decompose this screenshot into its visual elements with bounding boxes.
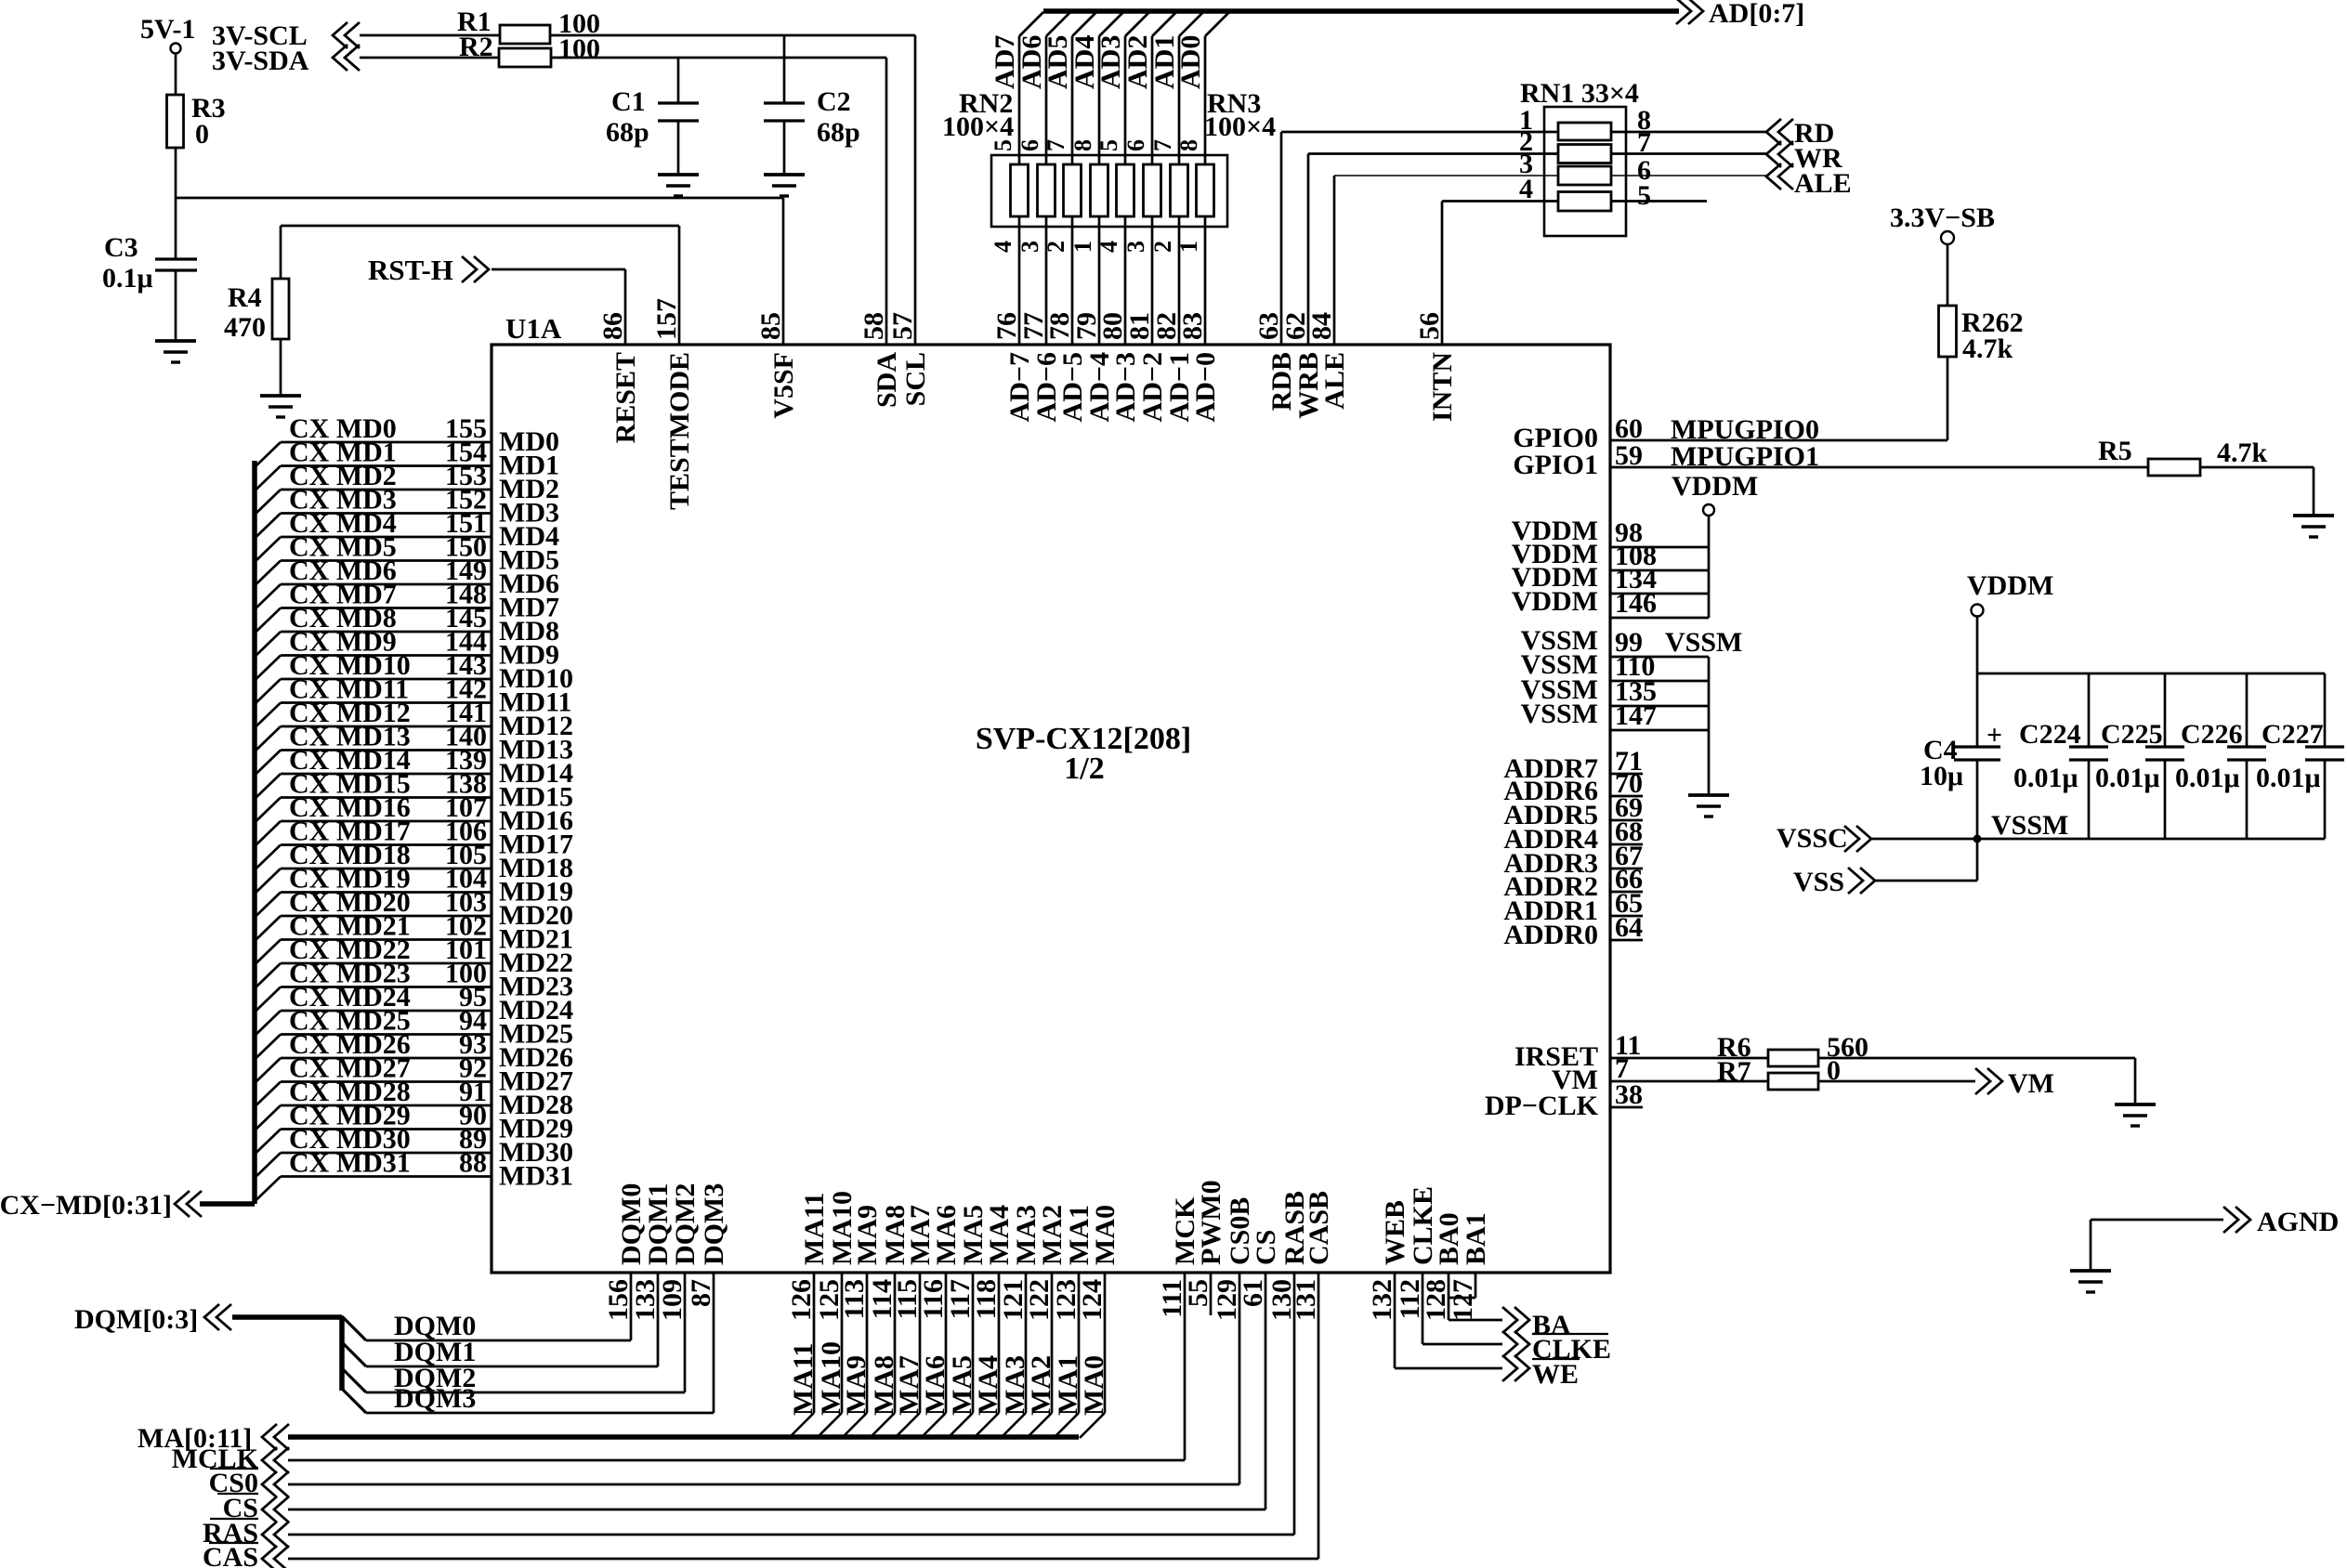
port ALE: [1766, 163, 1781, 189]
wire CX MD4 pin 151: [255, 537, 281, 562]
bus CX-MD[0:31]: [252, 461, 257, 1204]
wire DQM0 pin 156: [342, 1316, 366, 1340]
wire AD7 pin 76: [1019, 12, 1043, 36]
wire CX MD21 pin 102: [255, 940, 281, 965]
wire CX MD10 pin 143: [255, 679, 281, 704]
svg-text:R5: R5: [2098, 436, 2132, 466]
ground C2: [764, 173, 805, 176]
wire MA7 pin 115: [895, 1413, 920, 1438]
resistor R3: [175, 95, 177, 148]
svg-text:ADDR0: ADDR0: [1503, 920, 1598, 950]
svg-text:113: 113: [839, 1279, 870, 1319]
wire CX MD0 pin 155: [255, 442, 281, 467]
stub PWM0 pin 55: [1210, 1273, 1213, 1315]
svg-text:88: 88: [459, 1148, 487, 1179]
port RD: [1766, 119, 1781, 145]
svg-text:126: 126: [786, 1279, 817, 1321]
wire WEB pin 132 to WE: [1394, 1273, 1396, 1368]
resistor network RN2 100x4: [991, 155, 1227, 227]
capacitor C225: [2164, 673, 2167, 747]
wire CX MD6 pin 149: [255, 584, 281, 609]
svg-text:7: 7: [1637, 127, 1651, 158]
svg-text:64: 64: [1615, 912, 1643, 943]
wire CX MD17 pin 106: [255, 845, 281, 870]
wire CX MD9 pin 144: [255, 656, 281, 681]
stub ADDR0 pin 64: [1610, 939, 1643, 942]
svg-text:AD0: AD0: [1175, 35, 1206, 89]
svg-text:61: 61: [1238, 1279, 1268, 1307]
wire RN1 pin 8 to RD: [1611, 131, 1768, 134]
wire VSSM pins 99 110 135 147: [1610, 656, 1709, 659]
svg-text:U1A: U1A: [505, 312, 562, 345]
svg-text:DQM[0:3]: DQM[0:3]: [74, 1304, 198, 1335]
svg-text:CASB: CASB: [1304, 1191, 1334, 1265]
svg-text:BA1: BA1: [1461, 1212, 1491, 1265]
wire CX MD11 pin 142: [255, 703, 281, 728]
svg-text:VDDM: VDDM: [1967, 570, 2053, 601]
svg-text:87: 87: [686, 1279, 716, 1307]
svg-text:R7: R7: [1717, 1056, 1751, 1087]
ground AGND: [2070, 1269, 2111, 1273]
svg-text:100×4: 100×4: [942, 111, 1014, 142]
svg-text:ALE: ALE: [1319, 352, 1350, 410]
svg-text:DQM3: DQM3: [699, 1183, 729, 1265]
op-amp/IC U1A SVP-CX12[208]: [492, 345, 1610, 1273]
svg-text:10μ: 10μ: [1920, 761, 1963, 791]
wire CX MD27 pin 92: [255, 1082, 281, 1107]
svg-text:100: 100: [558, 33, 600, 64]
wire TESTMODE pin 157 to R4: [678, 226, 681, 345]
svg-text:VSS: VSS: [1793, 867, 1844, 897]
wire 3V-SDA to R2: [360, 57, 499, 59]
wire CLKE pin 112 to CLKE: [1422, 1273, 1424, 1344]
wire GPIO1 pin 59 to R5: [1610, 466, 2148, 469]
svg-text:VDDM: VDDM: [1512, 586, 1598, 617]
ground R5: [2293, 514, 2334, 517]
svg-text:DP−CLK: DP−CLK: [1485, 1091, 1599, 1121]
wire AD6 pin 77: [1046, 12, 1070, 36]
wire MA1 pin 123: [1054, 1413, 1079, 1438]
svg-text:0.01μ: 0.01μ: [2095, 763, 2160, 793]
wire AD2 pin 81: [1152, 12, 1176, 36]
wire net V5SF horizontal: [176, 197, 783, 200]
svg-text:132: 132: [1367, 1279, 1397, 1321]
svg-text:0.01μ: 0.01μ: [2256, 763, 2321, 793]
stub ADDR3 pin 67: [1610, 868, 1643, 870]
svg-text:CAS: CAS: [203, 1542, 258, 1568]
svg-text:84: 84: [1306, 312, 1337, 340]
svg-text:7: 7: [1149, 139, 1176, 151]
wire CX MD7 pin 148: [255, 608, 281, 634]
svg-text:83: 83: [1177, 312, 1208, 340]
svg-text:5: 5: [1095, 139, 1122, 151]
wire AD1 pin 82: [1179, 12, 1203, 36]
wire CX MD8 pin 145: [255, 632, 281, 657]
svg-text:INTN: INTN: [1427, 352, 1458, 422]
wire V5SF to pin 85: [782, 198, 785, 345]
wire RN1 pin 7 to WR: [1611, 152, 1768, 155]
resistor R2: [499, 57, 551, 59]
wire VDDM pins 98 108 134 146: [1708, 516, 1711, 618]
wire MA10 pin 125: [817, 1413, 842, 1438]
svg-text:147: 147: [1615, 700, 1657, 731]
svg-text:C224: C224: [2019, 719, 2081, 750]
port VM: [1975, 1068, 1990, 1094]
wire CX MD12 pin 141: [255, 726, 281, 751]
svg-text:TESTMODE: TESTMODE: [664, 352, 695, 510]
wire CX MD14 pin 139: [255, 774, 281, 799]
svg-text:3V-SDA: 3V-SDA: [212, 46, 309, 76]
bus AD[0:7]: [1043, 8, 1679, 14]
stub DP-CLK pin 38: [1610, 1106, 1643, 1109]
svg-text:WEB: WEB: [1380, 1200, 1410, 1265]
svg-text:MPUGPIO1: MPUGPIO1: [1671, 441, 1819, 472]
svg-text:3.3V−SB: 3.3V−SB: [1890, 203, 1995, 233]
svg-text:CX−MD[0:31]: CX−MD[0:31]: [0, 1190, 172, 1221]
wire CX MD19 pin 104: [255, 893, 281, 918]
svg-text:56: 56: [1414, 312, 1445, 340]
svg-text:DQM2: DQM2: [670, 1183, 701, 1265]
wire CX MD15 pin 138: [255, 798, 281, 823]
svg-text:RESET: RESET: [610, 352, 641, 443]
svg-text:131: 131: [1291, 1279, 1321, 1321]
svg-text:6: 6: [1016, 139, 1043, 151]
svg-text:127: 127: [1448, 1279, 1478, 1321]
resistor R1: [500, 34, 550, 37]
svg-text:RN1 33×4: RN1 33×4: [1520, 78, 1639, 109]
resistor R5: [2148, 466, 2200, 469]
port WR: [1766, 141, 1781, 167]
svg-text:V5SF: V5SF: [768, 352, 799, 419]
ground C1: [658, 173, 699, 176]
svg-text:DQM3: DQM3: [394, 1383, 476, 1414]
svg-text:4: 4: [990, 241, 1016, 253]
stub ADDR4 pin 68: [1610, 843, 1643, 846]
svg-text:BA: BA: [1532, 1310, 1571, 1340]
svg-text:3: 3: [1016, 241, 1043, 253]
svg-text:+: +: [1986, 720, 2002, 751]
wire MA2 pin 122: [1027, 1413, 1052, 1438]
stub ADDR2 pin 66: [1610, 891, 1643, 894]
wire WRB pin 62 to RN1 pin 2: [1307, 154, 1310, 346]
wire AD5 pin 78: [1072, 12, 1096, 36]
resistor network RN1 33x4: [1544, 107, 1626, 236]
svg-text:57: 57: [887, 312, 918, 340]
wire MA6 pin 116: [921, 1413, 946, 1438]
capacitor C226: [2246, 673, 2249, 747]
wire CX MD3 pin 152: [255, 514, 281, 539]
wire RN1 pin 5 stub: [1611, 200, 1707, 203]
svg-text:1: 1: [1069, 241, 1096, 253]
svg-text:1/2: 1/2: [1064, 751, 1104, 786]
wire ALE pin 84 to RN1 pin 3: [1333, 176, 1336, 345]
wire CX MD30 pin 89: [255, 1153, 281, 1178]
svg-text:VSSM: VSSM: [1991, 810, 2068, 841]
wire R2 to SDA pin 58: [551, 57, 886, 59]
wire VSSM rail: [1872, 838, 2325, 841]
wire CX MD25 pin 94: [255, 1035, 281, 1060]
svg-text:8: 8: [1069, 139, 1096, 151]
wire CX MD2 pin 153: [255, 490, 281, 515]
svg-text:2: 2: [1042, 241, 1069, 253]
wire MA0 pin 124: [1080, 1413, 1105, 1438]
resistor R7: [1768, 1073, 1818, 1090]
svg-text:MD31: MD31: [499, 1161, 573, 1192]
svg-text:GPIO1: GPIO1: [1513, 450, 1598, 480]
wire AD0 pin 83: [1205, 12, 1229, 36]
ground VSSM: [1688, 793, 1729, 797]
svg-text:VSSC: VSSC: [1777, 823, 1848, 854]
wire INTN pin 56 to RN1 pin 4: [1441, 202, 1444, 346]
svg-text:5: 5: [1637, 180, 1651, 211]
wire IRSET pin 11 to R6: [1610, 1057, 2135, 1060]
wire AD3 pin 80: [1125, 12, 1149, 36]
capacitor C227: [2324, 673, 2327, 747]
wire CX MD20 pin 103: [255, 916, 281, 941]
svg-text:MA9: MA9: [852, 1205, 883, 1265]
svg-text:124: 124: [1077, 1279, 1108, 1321]
svg-text:C227: C227: [2262, 719, 2324, 750]
svg-text:86: 86: [597, 312, 628, 340]
wire 3V-SCL to R1: [360, 34, 500, 37]
wire C4 to VSSM rail: [1976, 760, 1979, 839]
ground R6: [2115, 1103, 2156, 1106]
wire CX MD1 pin 154: [255, 466, 281, 491]
capacitor C1: [677, 58, 680, 103]
wire VM pin 7 to port VM: [1610, 1080, 1975, 1083]
svg-text:ALE: ALE: [1794, 168, 1852, 199]
stub ADDR5 pin 69: [1610, 819, 1643, 822]
svg-text:PWM0: PWM0: [1196, 1180, 1226, 1265]
resistor R262: [1947, 306, 1949, 357]
svg-text:68p: 68p: [606, 117, 649, 148]
svg-text:0.01μ: 0.01μ: [2013, 763, 2078, 793]
svg-text:1: 1: [1175, 241, 1202, 253]
ground R4: [260, 394, 301, 398]
stub ADDR1 pin 65: [1610, 915, 1643, 918]
svg-text:146: 146: [1615, 588, 1657, 619]
wire MA8 pin 114: [870, 1413, 895, 1438]
svg-text:VM: VM: [2008, 1068, 2054, 1099]
svg-text:38: 38: [1615, 1079, 1643, 1110]
wire C3 to ground: [175, 270, 177, 341]
svg-text:VSSM: VSSM: [1665, 627, 1742, 658]
svg-text:4.7k: 4.7k: [2217, 438, 2268, 468]
svg-text:85: 85: [755, 312, 786, 340]
svg-text:157: 157: [651, 298, 682, 340]
resistor network RN3 100x4: [1117, 164, 1134, 216]
svg-text:VDDM: VDDM: [1672, 471, 1758, 502]
svg-text:RST-H: RST-H: [368, 254, 453, 286]
wire CX MD23 pin 100: [255, 987, 281, 1013]
svg-text:6: 6: [1122, 139, 1149, 151]
stub ADDR6 pin 70: [1610, 795, 1643, 798]
wire CX MD24 pin 95: [255, 1011, 281, 1036]
svg-text:55: 55: [1183, 1279, 1213, 1307]
svg-text:58: 58: [859, 312, 889, 340]
svg-text:C226: C226: [2181, 719, 2243, 750]
wire CX MD13 pin 140: [255, 751, 281, 776]
wire R5 to ground: [2200, 466, 2314, 469]
svg-text:C1: C1: [611, 86, 646, 117]
svg-text:MA9: MA9: [841, 1355, 872, 1416]
svg-text:3: 3: [1122, 241, 1149, 253]
svg-text:R2: R2: [459, 32, 493, 62]
capacitor C4: [1954, 745, 2000, 748]
wire R3 to C3: [175, 148, 177, 259]
svg-text:0.01μ: 0.01μ: [2175, 763, 2240, 793]
svg-text:AD[0:7]: AD[0:7]: [1709, 0, 1804, 29]
wire RST-H to RESET pin 86: [492, 268, 625, 271]
wire R4 to ground: [280, 339, 282, 396]
svg-text:4.7k: 4.7k: [1962, 333, 2013, 364]
svg-text:SDA: SDA: [872, 352, 902, 408]
wire GPIO0 pin 60 to R262: [1610, 439, 1947, 442]
wire CX MD5 pin 150: [255, 561, 281, 586]
svg-text:0: 0: [1827, 1055, 1841, 1086]
svg-text:0: 0: [195, 119, 209, 150]
port AGND: [2091, 1219, 2223, 1222]
capacitor C224: [2088, 673, 2091, 747]
wire DQM2 pin 109: [342, 1368, 366, 1392]
junction VSSM: [1973, 835, 1982, 843]
svg-text:CX MD31: CX MD31: [289, 1148, 411, 1179]
stub ADDR7 pin 71: [1610, 773, 1643, 776]
wire MA4 pin 118: [974, 1413, 999, 1438]
wire 5V-1 to R3: [175, 54, 177, 96]
svg-text:C3: C3: [104, 232, 138, 263]
svg-text:VSSM: VSSM: [1521, 699, 1598, 729]
ground C3: [155, 339, 196, 343]
svg-text:470: 470: [224, 312, 266, 343]
svg-text:R4: R4: [228, 282, 262, 313]
svg-text:0.1μ: 0.1μ: [102, 263, 153, 294]
wire AD4 pin 79: [1099, 12, 1123, 36]
capacitor C2: [783, 35, 786, 103]
wire DQM3 pin 87: [342, 1389, 366, 1413]
svg-text:SCL: SCL: [900, 352, 931, 406]
wire MA3 pin 121: [1001, 1413, 1026, 1438]
wire MA9 pin 113: [842, 1413, 867, 1438]
wire CX MD29 pin 90: [255, 1130, 281, 1155]
svg-text:MA11: MA11: [788, 1343, 819, 1416]
wire RDB pin 63 to RN1 pin 1: [1280, 132, 1283, 345]
wire MA11 pin 126: [789, 1413, 814, 1438]
wire BA1 pin 127 join BA0: [1475, 1273, 1477, 1298]
wire MA5 pin 117: [948, 1413, 973, 1438]
svg-text:AGND: AGND: [2257, 1207, 2339, 1237]
svg-text:68p: 68p: [817, 117, 860, 148]
wire RN1 pin 6 to ALE: [1611, 175, 1768, 176]
svg-text:4: 4: [1095, 241, 1122, 253]
wire VDDM to C4: [1976, 616, 1979, 747]
resistor R6: [1768, 1050, 1818, 1066]
wire BA0 pin 128 to BA: [1448, 1273, 1450, 1320]
svg-text:C225: C225: [2101, 719, 2163, 750]
capacitor C3: [155, 257, 197, 260]
svg-text:109: 109: [657, 1279, 688, 1321]
svg-text:CS: CS: [1251, 1230, 1281, 1265]
wire DQM1 pin 133: [342, 1342, 366, 1366]
wire CX MD16 pin 107: [255, 821, 281, 846]
wire CX MD31 pin 88: [255, 1177, 281, 1202]
wire CX MD26 pin 93: [255, 1058, 281, 1083]
svg-text:8: 8: [1175, 139, 1202, 151]
resistor R4: [280, 279, 282, 339]
svg-text:100×4: 100×4: [1204, 111, 1276, 142]
svg-text:59: 59: [1615, 440, 1643, 471]
svg-text:4: 4: [1519, 174, 1533, 204]
svg-text:AD−0: AD−0: [1190, 352, 1221, 422]
svg-text:MA0: MA0: [1090, 1205, 1121, 1265]
svg-text:7: 7: [1042, 139, 1069, 151]
wire CX MD28 pin 91: [255, 1105, 281, 1130]
svg-text:5V-1: 5V-1: [140, 14, 195, 45]
svg-text:C2: C2: [817, 86, 851, 117]
svg-text:MA11: MA11: [799, 1193, 830, 1265]
wire CX MD18 pin 105: [255, 869, 281, 894]
svg-text:2: 2: [1149, 241, 1176, 253]
svg-text:MA0: MA0: [1079, 1355, 1109, 1416]
wire decoupling top rail: [1977, 673, 2325, 675]
wire CX MD22 pin 101: [255, 963, 281, 988]
wire R1 to SCL pin 57: [550, 34, 915, 37]
